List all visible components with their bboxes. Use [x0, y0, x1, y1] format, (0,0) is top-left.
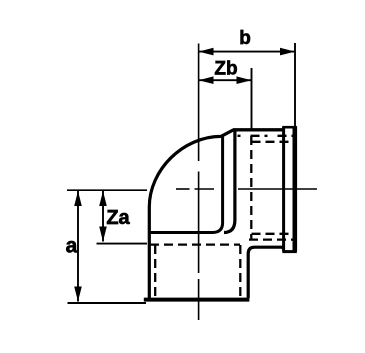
- hidden thread line bottom socket left: [154, 245, 156, 297]
- dimension Zb: left arrow: [199, 76, 214, 84]
- vertical center line of bottom socket: [198, 44, 200, 321]
- dimension a: bottom extension line: [68, 302, 147, 304]
- svg-text:a: a: [66, 235, 78, 258]
- bead (band) of right socket: left edge: [282, 127, 285, 252]
- dimension Za: bottom arrow: [99, 227, 107, 242]
- right socket bottom edge with fillet into bottom socket right wall: [248, 247, 283, 298]
- bead right edge: [292, 127, 297, 252]
- dimension a: top arrow: [74, 191, 82, 206]
- svg-text:Zb: Zb: [214, 59, 237, 80]
- dimension Za: dimension line: [102, 191, 104, 242]
- hidden thread end horizontal in bottom socket: [150, 243, 240, 245]
- dimension Za: bottom extension line: [97, 243, 148, 245]
- dimension Zb: right arrow: [237, 76, 252, 84]
- hidden thread end vertical in right socket: [250, 136, 252, 239]
- dimension b: right arrow: [280, 48, 295, 56]
- dimension Za: top arrow: [99, 191, 107, 206]
- right socket mouth face line: [224, 130, 235, 233]
- hidden thread line bottom socket right: [239, 245, 241, 297]
- hidden thread line right socket lower inner: [252, 233, 293, 235]
- horizontal center line of right socket: [67, 189, 317, 190]
- bottom socket mouth face: [144, 298, 250, 302]
- dimension a: bottom arrow: [74, 287, 82, 302]
- svg-text:b: b: [239, 28, 251, 49]
- dimension Zb: extension line right: [251, 68, 253, 129]
- hidden thread line right socket lower outer: [249, 238, 293, 240]
- hidden thread line right socket upper inner: [252, 141, 293, 143]
- inner elbow contour with fillet to bottom socket shoulder: [148, 137, 222, 233]
- dimension b: extension line right: [294, 43, 296, 126]
- bead top edge: [282, 126, 296, 129]
- dimension a: dimension line: [77, 191, 79, 302]
- svg-text:Za: Za: [106, 207, 130, 229]
- bead bottom edge: [282, 250, 296, 253]
- hidden thread line right socket upper outer: [238, 135, 293, 137]
- bead step connectors: [282, 128, 285, 252]
- right socket top edge: [233, 128, 283, 131]
- dimension b: left arrow: [199, 48, 214, 56]
- elbow outer profile: bottom-left wall, outer arc, chamfer: [149, 130, 233, 298]
- dimension b: dimension line: [199, 51, 296, 53]
- dimension Zb: dimension line: [199, 79, 252, 81]
